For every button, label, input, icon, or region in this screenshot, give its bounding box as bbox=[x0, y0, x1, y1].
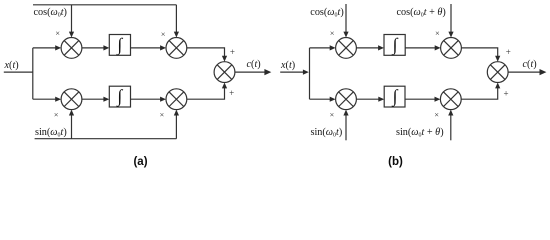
wire: integrator4 to M8 (b) bbox=[405, 97, 440, 102]
svg-text:+: + bbox=[229, 88, 234, 98]
svg-text:∫: ∫ bbox=[116, 86, 123, 107]
wire: integrator3 to M6 (b) bbox=[405, 45, 440, 50]
wire: junction vertical (b) bbox=[309, 48, 311, 99]
wire: top feed to M5 (b) bbox=[310, 45, 336, 50]
svg-text:×: × bbox=[330, 28, 335, 38]
svg-text:sin(ω0t + θ): sin(ω0t + θ) bbox=[396, 127, 444, 138]
wire: x(t) input (a) bbox=[4, 71, 33, 73]
wire: top feed to M1 (a) bbox=[33, 45, 61, 50]
wire: M4 to summer bottom (a) bbox=[187, 83, 227, 100]
svg-text:+: + bbox=[504, 89, 509, 99]
wire: summer output c(t) (b) bbox=[508, 69, 546, 75]
svg-text:cos(ω0t + θ): cos(ω0t + θ) bbox=[397, 7, 446, 18]
svg-text:×: × bbox=[55, 28, 60, 38]
svg-text:(a): (a) bbox=[133, 156, 147, 168]
wire: integrator2 to M4 (a) bbox=[131, 97, 167, 102]
wire: M7 to integrator4 (b) bbox=[356, 97, 384, 102]
svg-text:sin(ω0t): sin(ω0t) bbox=[35, 127, 67, 138]
wire: junction vertical (a) bbox=[32, 48, 34, 99]
svg-text:x(t): x(t) bbox=[280, 60, 295, 71]
multiplier M6 (b) bbox=[441, 38, 462, 59]
integrator U2 (a) bbox=[109, 86, 130, 107]
integrator U4 (b) bbox=[384, 86, 405, 107]
wire: cos riser into M2 (a) bbox=[174, 5, 179, 38]
wire: sin riser into M3 (a) bbox=[69, 110, 74, 139]
wire: M3 to integrator2 (a) bbox=[82, 97, 109, 102]
svg-text:+: + bbox=[506, 47, 511, 57]
svg-text:×: × bbox=[161, 29, 166, 39]
multiplier M8 (b) bbox=[440, 89, 461, 110]
summer S2 (b) bbox=[487, 62, 508, 83]
svg-text:×: × bbox=[330, 109, 335, 119]
svg-text:×: × bbox=[160, 109, 165, 119]
wire: M2 to summer top (a) bbox=[187, 48, 227, 62]
svg-text:×: × bbox=[435, 28, 440, 38]
wire: cos drop into M5 (b) bbox=[343, 4, 348, 38]
multiplier M3 (a) bbox=[61, 89, 82, 110]
wire: cos+theta drop into M6 (b) bbox=[448, 4, 453, 38]
wire: sin riser into M4 (a) bbox=[174, 110, 179, 139]
wire: cos riser into M1 (a) bbox=[69, 5, 74, 38]
svg-text:×: × bbox=[54, 109, 59, 119]
svg-text:(b): (b) bbox=[388, 156, 403, 168]
integrator U1 (a) bbox=[109, 34, 130, 55]
wire: M5 to integrator3 (b) bbox=[356, 45, 384, 50]
integrator U3 (b) bbox=[384, 34, 405, 55]
svg-text:cos(ω0t): cos(ω0t) bbox=[34, 7, 67, 18]
multiplier M7 (b) bbox=[336, 89, 357, 110]
multiplier M4 (a) bbox=[166, 89, 187, 110]
multiplier M2 (a) bbox=[166, 38, 187, 59]
svg-text:x(t): x(t) bbox=[4, 60, 19, 71]
wire: x(t) input with arrow (b) bbox=[280, 70, 309, 75]
wire: sin bus (a) bbox=[35, 138, 177, 140]
wire: bottom feed to M3 (a) bbox=[33, 97, 61, 102]
wire: integrator1 to M2 (a) bbox=[131, 45, 167, 50]
svg-text:cos(ω0t): cos(ω0t) bbox=[310, 7, 343, 18]
wire: sin rise into M7 (b) bbox=[343, 110, 348, 141]
wire: summer output c(t) (a) bbox=[235, 69, 271, 75]
multiplier M1 (a) bbox=[61, 38, 82, 59]
wire: cos bus (a) bbox=[33, 4, 176, 6]
wire: M8 to summer bottom (b) bbox=[461, 83, 500, 100]
svg-text:sin(ω0t): sin(ω0t) bbox=[311, 127, 343, 138]
svg-text:∫: ∫ bbox=[392, 86, 399, 107]
wire: bottom feed to M7 (b) bbox=[310, 97, 336, 102]
svg-text:∫: ∫ bbox=[392, 34, 399, 55]
svg-text:c(t): c(t) bbox=[523, 59, 537, 70]
svg-text:∫: ∫ bbox=[116, 34, 123, 55]
summer S1 (a) bbox=[214, 62, 235, 83]
wire: M6 to summer top (b) bbox=[461, 48, 500, 62]
svg-text:×: × bbox=[434, 109, 439, 119]
svg-text:+: + bbox=[230, 47, 235, 57]
wire: sin+theta rise into M8 (b) bbox=[448, 110, 453, 141]
wire: M1 to integrator1 (a) bbox=[82, 45, 109, 50]
multiplier M5 (b) bbox=[336, 38, 357, 59]
svg-text:c(t): c(t) bbox=[247, 59, 261, 70]
